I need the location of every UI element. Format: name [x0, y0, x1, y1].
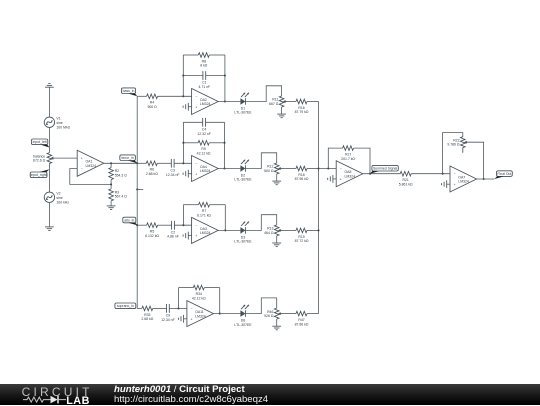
node junction R9 left — [182, 142, 184, 144]
wire ground stub OA3 — [188, 235, 191, 237]
resistor R21 5.861 kΩ — [399, 171, 413, 186]
wire R4 to OA2 −in — [158, 95, 192, 97]
wire OA8 feedback left — [328, 148, 342, 168]
ground — [277, 114, 286, 118]
svg-text:87.86 kΩ: 87.86 kΩ — [295, 322, 309, 326]
svg-text:567.4 Ω: 567.4 Ω — [115, 195, 128, 199]
wire C4 to right vertical — [206, 121, 225, 123]
svg-text:Summed Signal: Summed Signal — [373, 167, 398, 171]
node junction right bus/alto — [317, 229, 319, 231]
wire stub on bus — [137, 188, 143, 190]
resistor R7 6.171 kΩ — [197, 202, 211, 217]
svg-text:8 kΩ: 8 kΩ — [200, 64, 208, 68]
node junction tenor output/feedback — [223, 167, 225, 169]
ground G1 (top, inverted) — [45, 84, 54, 88]
wire R33 to C9 — [153, 307, 167, 309]
wire ground stub OA4 — [188, 173, 191, 175]
svg-text:5.861 kΩ: 5.861 kΩ — [399, 182, 413, 186]
wire D2 to R12 top — [245, 153, 276, 169]
node junction OA8 feedback — [327, 167, 329, 169]
wire OA4 out to D2 — [218, 168, 240, 170]
node junction bass output/feedback — [224, 100, 226, 102]
wire balance wiper to OA1 +in — [53, 157, 78, 159]
svg-text:+: + — [195, 234, 197, 238]
resistor R5 6.132 kΩ — [145, 223, 159, 238]
ground on OA2 +in — [183, 103, 188, 111]
svg-text:2.68 kΩ: 2.68 kΩ — [146, 172, 158, 176]
potentiometer R12 500 Ω — [264, 163, 282, 174]
resistor R6 2.68 kΩ — [146, 161, 158, 176]
wire OA8 out to R21 — [363, 173, 400, 175]
resistor R17 201.7 kΩ — [341, 146, 355, 161]
svg-text:926 Ω: 926 Ω — [264, 314, 274, 318]
svg-text:LTL-307EE: LTL-307EE — [234, 111, 252, 115]
svg-text:+: + — [195, 172, 197, 176]
svg-text:input_left: input_left — [33, 140, 47, 144]
wire bass feedback right vertical — [224, 55, 226, 102]
svg-text:LM324: LM324 — [345, 174, 356, 178]
wire to R8 — [183, 54, 198, 56]
wire D6 to R46 top — [245, 298, 276, 314]
node bass_in — [121, 88, 137, 96]
wire R21 to OA7 −in — [411, 173, 450, 175]
wire alto feedback right vertical — [224, 205, 226, 231]
wire bass_in to R4 — [137, 95, 146, 97]
ground on OA8 +in — [328, 175, 333, 183]
resistor R19 87.72 kΩ — [295, 228, 309, 243]
wire C2 to OA3 −in — [174, 224, 191, 226]
svg-text:+: + — [454, 183, 456, 187]
svg-text:LTL-307EE: LTL-307EE — [234, 240, 252, 244]
wire V1 to balance pot — [48, 128, 50, 153]
svg-text:bass_in: bass_in — [123, 89, 135, 93]
svg-text:4.71 nF: 4.71 nF — [198, 85, 210, 89]
node tenor_in — [120, 155, 137, 163]
wire R2 to R3 — [110, 180, 112, 189]
potentiometer R46 926 Ω — [264, 308, 282, 319]
wire C1 to right vertical — [206, 75, 225, 77]
capacitor C1 4.71 nF — [198, 71, 210, 89]
node junction right bus/tenor — [317, 167, 319, 169]
wire R6 to C3 — [157, 162, 171, 164]
wire OA3 out to D3 — [218, 229, 240, 231]
wire OA7 feedback to R22 top — [443, 133, 463, 174]
ground — [272, 243, 281, 247]
node junction C1 right — [224, 74, 226, 76]
node Summed Signal — [370, 165, 398, 173]
svg-text:87.72 kΩ: 87.72 kΩ — [295, 239, 309, 243]
resistor R16 87.79 kΩ — [295, 99, 309, 114]
LED D1 LTL-307EE — [234, 93, 252, 115]
resistor R18 87.96 kΩ — [295, 166, 309, 181]
svg-text:LAB: LAB — [66, 395, 90, 406]
svg-text:667 Ω: 667 Ω — [269, 102, 279, 106]
svg-text:12.34 nF: 12.34 nF — [161, 318, 175, 322]
wire R11 wiper to R16 — [287, 101, 296, 103]
wire to R2 — [110, 163, 112, 167]
svg-text:672.6 Ω: 672.6 Ω — [33, 159, 46, 163]
capacitor C9 12.34 nF — [161, 304, 175, 322]
svg-text:42.12 kΩ: 42.12 kΩ — [197, 152, 211, 156]
wire V2 to ground — [48, 203, 50, 227]
wire soprano feedback right vertical — [219, 288, 221, 314]
wire OA2 out to D1 — [218, 101, 240, 103]
potentiometer R22 9.786 Ω — [447, 137, 466, 153]
ground — [272, 326, 281, 330]
svg-text:−: − — [195, 95, 197, 99]
svg-text:12.34 nF: 12.34 nF — [166, 173, 180, 177]
node junction C1 left — [182, 74, 184, 76]
potentiometer R11 667 Ω — [269, 96, 287, 107]
svg-text:tenor_in: tenor_in — [121, 156, 134, 160]
svg-text:LM324: LM324 — [200, 231, 211, 235]
svg-text:464 Ω: 464 Ω — [264, 231, 274, 235]
LED D3 LTL-307EE — [234, 222, 252, 244]
svg-text:201.7 kΩ: 201.7 kΩ — [341, 157, 355, 161]
resistor R34 42.12 kΩ — [192, 285, 206, 300]
wire R34 to right vertical — [204, 287, 219, 289]
wire R16 to right bus — [307, 101, 319, 103]
node input_right — [30, 169, 49, 177]
wire alto feedback left vertical — [182, 205, 184, 226]
svg-text:LM324: LM324 — [458, 180, 469, 184]
wire C3 to OA4 −in — [174, 162, 192, 164]
resistor R9 42.12 kΩ — [197, 141, 211, 156]
wire R19 to right bus — [307, 229, 319, 231]
wire R46 wiper to R47 — [282, 313, 296, 315]
ground — [272, 181, 281, 185]
ground on OA11 +in — [178, 315, 183, 323]
wire R8 to right vertical — [209, 54, 225, 56]
svg-text:−: − — [195, 162, 197, 166]
wire OA1 feedback loop — [70, 169, 111, 185]
wire R47 to right bus — [307, 313, 319, 315]
svg-text:+: + — [81, 157, 83, 161]
node junction OA7 output — [483, 178, 485, 180]
CircuitLab logo — [21, 383, 101, 406]
wire right summing bus — [318, 102, 320, 314]
node junction soprano feedback — [177, 307, 179, 309]
node soprano_in — [115, 303, 137, 309]
svg-text:554.3 Ω: 554.3 Ω — [115, 173, 128, 177]
resistor R2 554.3 Ω — [109, 168, 127, 180]
wire soprano feedback left vertical — [178, 288, 180, 309]
ground on OA7 +in — [442, 180, 447, 188]
wire OA8 feedback right — [354, 148, 370, 174]
svg-text:alto_in: alto_in — [124, 218, 134, 222]
voltage source V2 sine 100 kHz — [44, 192, 69, 205]
wire ground stub OA2 — [188, 106, 191, 108]
wire OA1 output to bus — [104, 162, 137, 164]
ground on OA4 +in — [183, 170, 188, 178]
wire to R9 — [183, 142, 198, 144]
wire R18 to right bus — [307, 168, 319, 170]
svg-text:input_right: input_right — [31, 173, 47, 177]
svg-text:100 kHz: 100 kHz — [56, 200, 69, 204]
wire R46 to ground — [276, 319, 278, 326]
svg-text:LM324: LM324 — [200, 102, 211, 106]
resistor R8 8 kΩ — [198, 53, 209, 68]
wire balance pot to V2 — [48, 164, 50, 193]
svg-text:LM324: LM324 — [200, 169, 211, 173]
wire R12 wiper to R18 — [282, 168, 296, 170]
capacitor C3 12.34 nF — [166, 159, 180, 177]
svg-text:LM324: LM324 — [86, 164, 97, 168]
wire tenor_in to R6 — [137, 162, 146, 164]
wire right bus to OA8 −in — [319, 168, 337, 170]
wire tenor feedback right vertical — [224, 122, 226, 168]
svg-text:LTL-307EE: LTL-307EE — [234, 178, 252, 182]
svg-text:900 Ω: 900 Ω — [147, 105, 157, 109]
ground on OA3 +in — [183, 232, 188, 240]
wire R11 to ground — [281, 107, 283, 114]
node alto_in — [123, 217, 137, 225]
op-amp OA4 LM324 — [192, 156, 219, 182]
svg-text:6.171 kΩ: 6.171 kΩ — [197, 213, 211, 217]
svg-text:87.79 kΩ: 87.79 kΩ — [295, 110, 309, 114]
svg-text:6.132 kΩ: 6.132 kΩ — [145, 234, 159, 238]
node junction stub — [136, 188, 138, 190]
svg-text:−: − — [454, 172, 456, 176]
resistor R33 2.68 kΩ — [141, 306, 153, 321]
svg-text:100 MHz: 100 MHz — [56, 125, 70, 129]
wire tenor feedback left vertical — [182, 122, 184, 163]
svg-text:500 Ω: 500 Ω — [264, 169, 274, 173]
node junction bus/alto — [136, 224, 138, 226]
wire R13 to ground — [276, 236, 278, 243]
node junction bus/tenor — [136, 162, 138, 164]
wire R3 to ground — [110, 201, 112, 206]
resistor R47 87.86 kΩ — [295, 311, 309, 326]
svg-text:42.12 kΩ: 42.12 kΩ — [192, 296, 206, 300]
wire D1 to R11 top — [245, 86, 281, 102]
svg-text:−: − — [195, 224, 197, 228]
op-amp OA3 LM324 — [192, 217, 219, 243]
wire ground stub OA11 — [184, 318, 187, 320]
wire C9 to OA11 −in — [169, 307, 187, 309]
svg-text:2.68 kΩ: 2.68 kΩ — [141, 317, 153, 321]
wire soprano_in to R33 — [137, 307, 142, 309]
wire alto_in to R5 — [137, 224, 146, 226]
svg-text:Final Out: Final Out — [497, 172, 511, 176]
wire R9 to right vertical — [209, 142, 224, 144]
svg-text:LM324: LM324 — [195, 314, 206, 318]
svg-text:+: + — [195, 105, 197, 109]
LED D6 LTL-307EE — [234, 305, 252, 327]
wire ground stub OA8 — [333, 178, 336, 180]
node junction soprano output/feedback — [219, 313, 221, 315]
capacitor C2 4.86 nF — [167, 221, 179, 239]
svg-text:12.32 nF: 12.32 nF — [197, 132, 211, 136]
wire R22 wiper to OA7 output — [466, 142, 484, 179]
op-amp OA1 LM324 — [77, 150, 104, 176]
svg-text:4.86 nF: 4.86 nF — [167, 235, 179, 239]
node junction R2 top — [110, 162, 112, 164]
svg-text:9.786 Ω: 9.786 Ω — [447, 143, 460, 147]
op-amp OA8 LM324 — [336, 161, 363, 187]
node junction OA8 output — [369, 173, 371, 175]
wire to R7 — [183, 204, 198, 206]
svg-text:87.96 kΩ: 87.96 kΩ — [295, 177, 309, 181]
wire R7 to right vertical — [210, 204, 226, 206]
ground G3 (below R3) — [107, 206, 116, 210]
node Final Out — [494, 171, 512, 179]
svg-text:+: + — [340, 178, 342, 182]
wire left distribution bus — [136, 96, 138, 308]
wire bass feedback left vertical — [182, 55, 184, 96]
wire R12 to ground — [276, 174, 278, 181]
svg-text:−: − — [190, 307, 192, 311]
wire D3 to R13 top — [245, 215, 276, 231]
node junction alto output/feedback — [224, 229, 226, 231]
capacitor C4 12.32 nF — [197, 118, 211, 136]
wire to C1 — [183, 75, 203, 77]
wire R13 wiper to R19 — [282, 229, 296, 231]
svg-text:LTL-307EE: LTL-307EE — [234, 323, 252, 327]
svg-text:soprano_in: soprano_in — [117, 304, 134, 308]
node junction OA7 feedback — [442, 173, 444, 175]
resistor R4 900 Ω — [147, 94, 158, 109]
wire to C4 — [183, 121, 202, 123]
svg-text:−: − — [340, 167, 342, 171]
svg-text:−: − — [81, 167, 83, 171]
wire OA7 out to Final Out — [477, 178, 495, 180]
potentiometer balance 672.6 Ω — [33, 153, 53, 164]
node junction R2/R3 feedback — [110, 183, 112, 185]
wire R5 to C2 — [158, 224, 172, 226]
voltage source V1 sine 100 MHz — [44, 117, 70, 130]
LED D2 LTL-307EE — [234, 160, 252, 182]
node junction tenor feedback — [182, 162, 184, 164]
op-amp OA7 LM324 — [450, 166, 477, 192]
node input_left — [31, 139, 49, 148]
node junction alto feedback — [182, 224, 184, 226]
footer bar — [0, 384, 540, 406]
wire ground to V1 — [48, 87, 50, 117]
op-amp OA11 LM324 — [187, 301, 214, 327]
node junction bass feedback — [182, 95, 184, 97]
resistor R3 567.4 Ω — [109, 189, 127, 201]
wire OA11 out to D6 — [214, 313, 241, 315]
svg-text:+: + — [190, 317, 192, 321]
node junction R9 right — [223, 142, 225, 144]
op-amp OA2 LM324 — [192, 89, 219, 115]
ground G2 (bottom left) — [45, 227, 54, 231]
wire to R34 — [179, 287, 194, 289]
wire ground stub OA7 — [447, 183, 450, 185]
potentiometer R13 464 Ω — [264, 225, 282, 236]
